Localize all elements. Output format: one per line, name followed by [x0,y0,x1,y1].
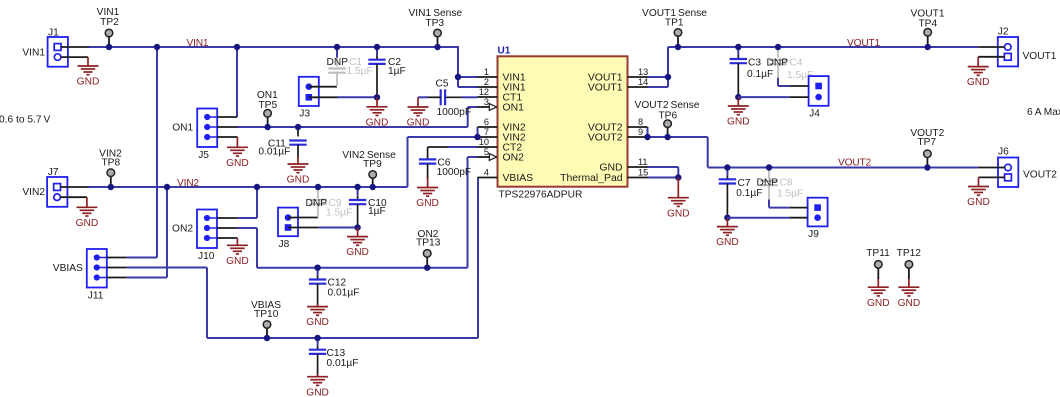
testpoint TP6 [635,100,700,137]
wire C8 to J9-1 [769,200,790,208]
pin stub J7-2 [61,196,87,198]
svg-text:DNP: DNP [766,57,788,68]
pin stub J3-2 [309,96,338,98]
svg-text:GND: GND [416,198,439,209]
wire net ON2 [237,157,478,268]
pin stub J9-2 [790,217,808,219]
junction VIN1/J11 drop [154,44,160,50]
svg-text:1.5µF: 1.5µF [326,208,352,219]
junction VIN2/TP9 [370,184,376,190]
svg-text:ON2: ON2 [503,153,525,164]
wire net VIN1 [88,46,478,258]
pin 8 VOUT2 of U1 [588,117,648,133]
ground at C11 [287,156,310,186]
svg-text:U1: U1 [498,46,511,57]
connector J8 [278,208,298,250]
pin 14 VOUT1 of U1 [588,77,648,93]
pin stub J2-2 [978,56,1004,58]
testpoint TP10 [251,300,281,338]
pin stub J10-1 [217,217,237,219]
svg-text:VOUT2: VOUT2 [838,157,871,168]
junction VIN1/TP2 [106,44,112,50]
connector J2 [998,27,1018,67]
svg-text:DNP: DNP [756,177,778,188]
svg-text:J5: J5 [198,150,209,161]
junction VOUT2/C8 [766,164,772,170]
pin stub J3-1 [309,86,337,88]
pin stub J9-1 [790,207,808,209]
pin 9 VOUT2 of U1 [588,127,648,143]
pin stub J10-2 [217,227,237,229]
pin 15 Thermal_Pad of U1 [560,168,648,184]
svg-text:TP2: TP2 [100,17,119,28]
junction C3/J4 node [735,94,741,100]
testpoint TP2 [97,7,120,47]
pin stub J1-1 [61,46,89,48]
svg-text:C3: C3 [748,58,761,69]
wire J11 pin3 stub [127,277,167,279]
op-amp U1 TPS22976ADPUR load switch [498,46,628,201]
svg-text:0.6 to 5.7 V: 0.6 to 5.7 V [0,115,51,126]
svg-text:ON1: ON1 [503,103,525,114]
wire J3-1 riser [336,47,338,59]
svg-text:VBIAS: VBIAS [53,263,83,274]
testpoint TP1 [642,8,707,47]
connector J3 [299,77,319,120]
svg-text:6: 6 [484,117,489,127]
svg-text:GND: GND [967,197,990,208]
wire J11 pin1 to VIN1 stub [127,257,157,259]
junction GND/Thermal_Pad node [675,174,681,180]
svg-text:4: 4 [484,168,489,178]
junction VOUT1/TP1 [675,44,681,50]
capacitor C6 [419,147,478,179]
wire net VIN2 [88,127,478,278]
pin stub J2-1 [978,46,1004,48]
svg-text:1000pF: 1000pF [437,107,472,118]
svg-text:VOUT1: VOUT1 [1023,51,1057,62]
capacitor C1 (DNP ghost) [326,57,372,86]
ground at C3 [727,97,750,128]
junction VOUT1/C4 [775,44,781,50]
svg-text:VIN2: VIN2 [22,187,45,198]
pin stub J11-2 [107,267,127,269]
svg-text:TP13: TP13 [416,237,441,248]
svg-text:J6: J6 [998,147,1009,158]
junction ON2/C12 [314,265,320,271]
wire net VOUT1 [648,47,979,87]
junction VIN1/J5 drop [234,44,240,50]
svg-text:GND: GND [226,256,249,267]
junction VIN2/J11 drop [164,184,170,190]
svg-text:J1: J1 [48,28,59,39]
svg-text:15: 15 [638,168,648,178]
capacitor C13 [309,338,359,377]
wire J3-2 to C2 node [338,96,378,98]
svg-text:DNP: DNP [326,57,348,68]
ground at TP11 [867,279,890,309]
pin 3 ON1 of U1 [478,97,525,113]
junction U1 pin9/pin8 riser [644,134,650,140]
capacitor C10 [349,187,387,228]
svg-text:TP4: TP4 [918,18,937,29]
ground at C13 [306,374,329,397]
svg-text:J3: J3 [299,109,310,120]
pin 6 VIN2 of U1 [478,117,526,133]
svg-text:10: 10 [479,137,489,147]
wire C4 to J4-1 [778,78,790,86]
svg-text:1.5µF: 1.5µF [777,189,803,200]
testpoint TP13 [416,229,441,268]
svg-text:2: 2 [484,77,489,87]
svg-text:GND: GND [226,158,249,169]
svg-text:VOUT1: VOUT1 [847,38,880,49]
svg-text:C5: C5 [436,78,449,89]
wire net VOUT2 [648,127,979,168]
pin stub J4-2 [790,96,809,98]
testpoint TP8 [99,148,122,187]
junction VIN1/C2 [374,44,380,50]
svg-text:J10: J10 [198,251,215,262]
pin 2 VIN1 of U1 [478,77,526,93]
svg-text:14: 14 [638,77,648,87]
svg-text:ON1: ON1 [172,123,193,134]
svg-text:Thermal_Pad: Thermal_Pad [560,173,623,184]
svg-text:GND: GND [898,298,921,309]
connector J6 [998,147,1018,188]
testpoint TP4 [911,9,945,47]
capacitor C12 [309,268,360,307]
svg-text:GND: GND [407,118,430,129]
svg-text:VOUT2: VOUT2 [588,133,623,144]
wire net ON1 [237,107,479,127]
pin 13 VOUT1 of U1 [588,67,648,83]
junction ON1/TP5 [264,124,270,130]
pin stub J5-1 [217,116,237,118]
svg-text:GND: GND [306,317,329,328]
connector J4 [809,76,829,119]
svg-text:12: 12 [479,87,489,97]
svg-text:GND: GND [366,117,389,128]
ground at J7 [76,197,99,229]
pin stub J8-2 [288,227,318,229]
ground at TP12 [898,279,921,309]
svg-text:TP12: TP12 [897,248,922,259]
svg-text:GND: GND [716,237,739,248]
svg-text:TP1: TP1 [665,18,684,29]
svg-text:5: 5 [484,147,489,157]
svg-text:6 A Max: 6 A Max [1027,107,1060,118]
svg-text:13: 13 [638,67,648,77]
junction VOUT2/C7 [724,164,730,170]
junction ON2/TP13 [424,265,430,271]
svg-text:GND: GND [599,163,622,174]
svg-text:TP10: TP10 [254,309,279,320]
svg-text:VIN1: VIN1 [187,38,209,49]
junction ON1/C11 [295,124,301,130]
svg-text:J9: J9 [808,229,819,240]
capacitor C5 [418,78,478,118]
svg-text:VBIAS: VBIAS [503,173,534,184]
svg-text:1µF: 1µF [368,206,386,217]
svg-text:VIN1: VIN1 [22,48,45,59]
pin stub J5-2 [217,126,237,128]
pin 4 VBIAS of U1 [478,168,534,184]
connector J11 [53,249,107,302]
junction VOUT1/C3 [735,44,741,50]
wire net VBIAS [127,178,478,339]
testpoint TP9 [342,150,396,187]
ground at J10 [226,238,249,267]
svg-text:8: 8 [638,117,643,127]
svg-text:J7: J7 [48,167,59,178]
connector J10 [172,210,217,263]
wire C3 node to J4-2 [738,96,790,98]
svg-text:GND: GND [727,117,750,128]
svg-text:TP7: TP7 [917,137,936,148]
capacitor C7 [719,168,763,218]
junction VOUT1/TP4 [925,44,931,50]
junction VOUT1 to U1 pin13 [665,74,671,80]
junction C10/J8-2/ground node [354,224,360,230]
capacitor C9 (DNP ghost) [305,189,352,219]
svg-text:TP11: TP11 [866,248,890,259]
svg-text:GND: GND [967,77,990,88]
svg-text:1.5µF: 1.5µF [347,66,373,77]
svg-text:GND: GND [867,298,890,309]
svg-text:J8: J8 [279,239,290,250]
capacitor C11 [258,127,306,158]
ground at J5 [226,137,249,169]
svg-text:C8: C8 [780,177,793,188]
junction VIN1/TP3 [434,44,440,50]
ground at C2 [366,97,389,128]
pin stub J6-2 [979,176,1005,178]
svg-text:GND: GND [346,247,369,258]
ground at J1 [77,57,100,88]
ground at C6 [416,178,439,209]
svg-text:GND: GND [306,387,329,397]
svg-text:0.1µF: 0.1µF [736,188,762,199]
pin stub J4-1 [790,85,809,87]
junction VIN2/J10 drop [254,184,260,190]
junction VIN2/C9 [315,184,321,190]
svg-text:VOUT1: VOUT1 [588,83,623,94]
junction VOUT2/TP7 [924,164,930,170]
pin stub J11-3 [107,277,127,279]
wire J8-2 to C10 node [318,227,358,229]
svg-text:1µF: 1µF [388,66,406,77]
pin stub J8-1 [288,217,318,219]
svg-text:VIN2: VIN2 [177,178,199,189]
svg-text:TP8: TP8 [101,158,120,169]
svg-text:DNP: DNP [305,198,327,209]
ground at J2 [967,57,990,88]
ground at J6 [967,177,990,208]
testpoint TP12 [897,248,922,279]
svg-text:11: 11 [638,157,648,167]
pin 12 CT1 of U1 [478,87,523,103]
pin 1 VIN1 of U1 [478,67,526,83]
svg-text:3: 3 [484,97,489,107]
ground at C10 [346,228,369,259]
svg-text:TPS22976ADPUR: TPS22976ADPUR [499,190,583,201]
junction VIN1 to U1 pins 1-2 [455,74,461,80]
pin 11 GND of U1 [599,157,647,173]
junction VOUT2/TP6 [664,134,670,140]
svg-text:GND: GND [287,175,310,186]
capacitor C4 (DNP ghost) [766,49,813,81]
junction U1 pin7 VIN2 [474,134,480,140]
svg-text:VOUT2: VOUT2 [1023,170,1057,181]
svg-text:GND: GND [77,77,100,88]
svg-text:9: 9 [638,127,643,137]
svg-text:7: 7 [484,127,489,137]
wire IC GND / Thermal_Pad to ground [648,167,679,180]
junction VBIAS/TP10 [264,335,270,341]
wire C7 node to J9-2 [727,217,789,219]
junction VBIAS/C13 [314,335,320,341]
svg-text:GND: GND [667,208,690,219]
svg-text:C4: C4 [790,57,803,68]
junction VIN2/C10 [354,184,360,190]
svg-text:J11: J11 [88,291,104,302]
svg-text:0.01µF: 0.01µF [328,288,360,299]
junction VIN1/C1 [334,44,340,50]
svg-text:TP9: TP9 [363,159,382,170]
connector J1 [48,28,68,67]
junction C7/J9 node [724,215,730,221]
connector J9 [808,198,828,240]
pin stub J1-2 [61,56,88,58]
svg-text:0.01µF: 0.01µF [258,147,290,158]
svg-text:GND: GND [76,218,99,229]
connector J5 [172,109,217,162]
testpoint TP11 [866,248,890,279]
svg-text:J4: J4 [809,108,820,119]
connector J7 [47,167,67,207]
wire J10-1 to VIN2 [237,217,257,219]
pin stub J7-1 [61,186,89,188]
testpoint TP5 [257,90,278,127]
svg-text:ON2: ON2 [172,224,193,235]
svg-text:J2: J2 [998,27,1009,38]
junction C2/J3-2/ground node [374,94,380,100]
svg-text:0.01µF: 0.01µF [327,358,359,369]
pin stub J5-3 [217,136,237,138]
ground at C5 [407,97,430,128]
ground at C12 [306,304,329,328]
svg-text:1: 1 [484,67,489,77]
junction VIN2/TP8 [108,184,114,190]
capacitor C3 [730,47,774,97]
ground at C7 [716,218,739,249]
svg-text:TP3: TP3 [425,18,444,29]
pin 5 ON2 of U1 [478,147,525,163]
svg-text:0.1µF: 0.1µF [747,69,773,80]
pin 7 VIN2 of U1 [478,127,526,143]
testpoint TP3 [409,8,463,47]
pin stub J6-1 [979,167,1005,169]
pin stub J11-1 [107,257,127,259]
svg-text:1000pF: 1000pF [437,167,472,178]
pin stub J10-3 [217,237,237,239]
capacitor C2 [368,47,405,97]
ground at U1 Thermal_Pad [667,178,690,220]
pin 10 CT2 of U1 [478,137,523,153]
capacitor C8 (DNP ghost) [756,170,803,200]
testpoint TP7 [910,128,944,167]
